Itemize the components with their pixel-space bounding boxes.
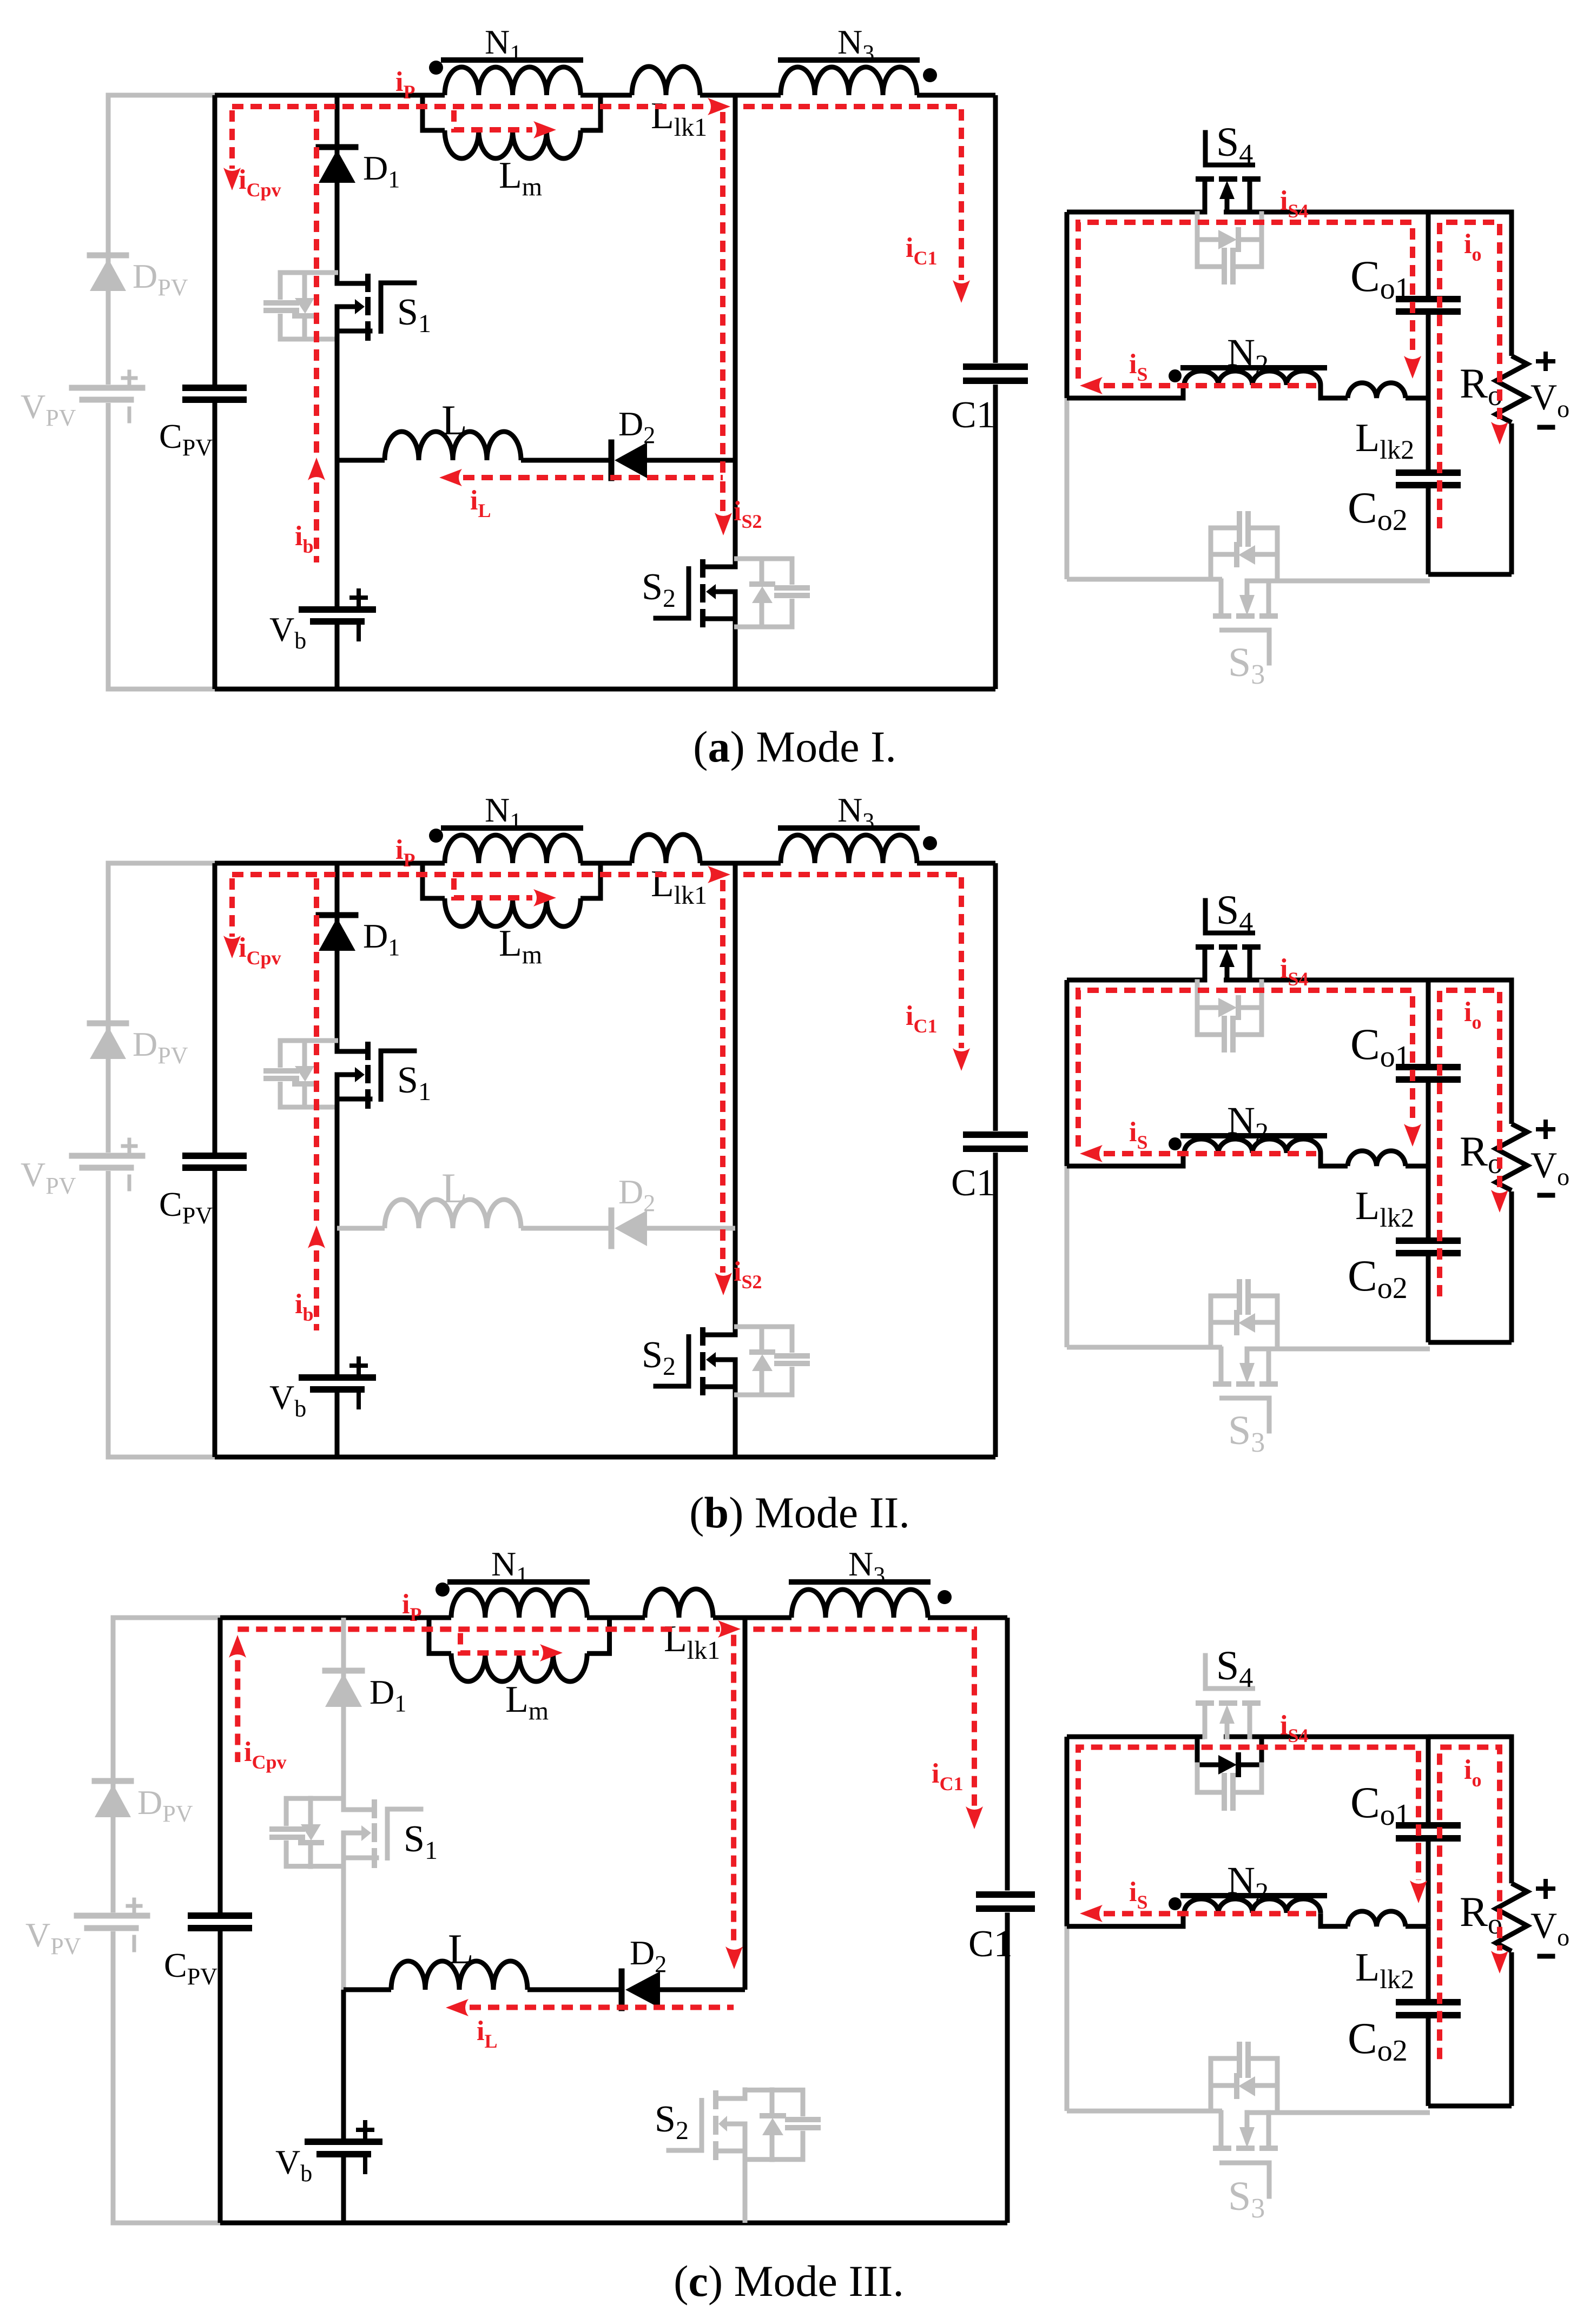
wire: output capacitor branch (a) — [1426, 212, 1431, 296]
svg-text:(b) Mode II.: (b) Mode II. — [689, 1488, 910, 1537]
transistor S2 (MOSFET) (b) — [705, 1333, 735, 1338]
wire: center column node A (b) — [733, 863, 738, 1335]
wire: battery inductor row (c) — [344, 1987, 391, 1992]
current path ip through Lm (b) — [454, 878, 532, 898]
diode D1 (c) — [325, 1668, 362, 1674]
wire: output right edge (b) — [1428, 980, 1512, 1124]
label: output voltage Vo (c) — [1538, 1886, 1553, 1891]
transistor S4 (MOSFET) (c) — [1203, 1656, 1208, 1689]
capacitor Co2 (a) — [1399, 469, 1457, 476]
transformer winding N2 (c) — [1184, 1899, 1321, 1913]
current path iC1 (b) — [743, 875, 961, 1048]
capacitor C1 (a) — [966, 363, 1025, 370]
capacitor CPV (a) — [186, 385, 243, 391]
inductor Llk1 (leakage) (c) — [645, 1589, 713, 1618]
body diode and capacitor of S2 (a) — [734, 559, 792, 585]
inductor Llk2 (leakage) (a) — [1348, 383, 1406, 398]
svg-text:L: L — [441, 1164, 467, 1211]
current path iCpv (a) — [229, 110, 235, 169]
diode DPV (b) — [90, 1021, 126, 1027]
current path ip through Lm (c) — [460, 1633, 539, 1653]
dot: N1 polarity (b) — [429, 829, 443, 843]
body diode and capacitor of S4 (a) — [1195, 214, 1200, 240]
svg-text:C1: C1 — [968, 1923, 1013, 1965]
diode D1 (b) — [319, 912, 355, 918]
resistor Ro (c) — [1496, 1883, 1527, 1951]
wire: column S1-source to battery (a) — [335, 331, 340, 460]
transformer winding N2 (a) — [1184, 371, 1321, 385]
dot: N3 polarity (a) — [923, 68, 937, 82]
current path iS (c) — [1104, 1911, 1316, 1916]
svg-text:(a) Mode I.: (a) Mode I. — [693, 722, 896, 771]
diode DPV (a) — [90, 253, 126, 259]
wire: secondary winding row (b) — [1067, 1153, 1183, 1166]
wire: output capacitor branch (c) — [1426, 1737, 1431, 1822]
wire: left edge (c) — [218, 1618, 223, 1912]
battery VPV (a) — [72, 385, 142, 391]
wire: secondary left edge (a) — [1065, 212, 1070, 398]
wire: secondary bottom rail (b) — [1067, 1345, 1222, 1350]
capacitor CPV (b) — [186, 1153, 243, 1159]
current path iL (a) — [463, 475, 723, 480]
wire: secondary top rail (c) — [1067, 1734, 1205, 1739]
diode D1 (a) — [319, 144, 355, 150]
current path iL (c) — [470, 2005, 734, 2010]
wire: column D1-S1 (c) — [341, 1618, 346, 1810]
current path ib (b) — [314, 878, 319, 1221]
transformer winding N3 (a) — [781, 67, 917, 95]
transistor S2 (MOSFET) (c) — [743, 2090, 748, 2098]
wire: output right edge (c) — [1428, 1737, 1512, 1883]
dot: N3 polarity (c) — [938, 1590, 952, 1604]
wire: secondary bottom rail (c) — [1067, 2109, 1222, 2114]
wire: center column node A (a) — [733, 95, 738, 567]
wire: battery inductor row (a) — [337, 458, 385, 463]
wire: output right edge (a) — [1428, 212, 1512, 356]
current path ip (b) — [232, 872, 708, 877]
inductor L (c) — [391, 1961, 527, 1990]
battery VPV (b) — [72, 1153, 142, 1159]
transistor S4 (MOSFET) (a) — [1203, 133, 1208, 165]
transformer winding N1 (a) — [445, 67, 580, 95]
wire: outer PV loop (inactive, c) — [113, 1618, 220, 1912]
wire: column S1-source to battery (b) — [335, 1099, 340, 1228]
svg-text:C1: C1 — [951, 394, 995, 436]
wire: left edge (a) — [213, 95, 217, 385]
current path io (b) — [1440, 990, 1500, 1296]
transformer winding N2 (b) — [1184, 1139, 1321, 1153]
diode D2 (a) — [609, 442, 615, 478]
transistor S1 (MOSFET) (a) — [337, 281, 368, 286]
current path iC1 (a) — [743, 107, 961, 280]
svg-text:L: L — [448, 1925, 474, 1972]
body diode and capacitor of S1 (b) — [280, 1041, 338, 1068]
resistor Ro (b) — [1496, 1124, 1527, 1190]
current path iS4 (b) — [1078, 990, 1413, 1147]
transistor S3 (MOSFET, inactive) (a) — [1219, 581, 1224, 614]
inductor Llk2 (leakage) (b) — [1348, 1151, 1406, 1166]
current path io (c) — [1440, 1747, 1500, 2059]
body diode and capacitor of S1 (a) — [280, 273, 338, 300]
dot: N2 polarity (c) — [1169, 1897, 1182, 1910]
current path ip (a) — [232, 104, 708, 109]
wire: top rail (a) — [215, 93, 445, 98]
current path ip through Lm (a) — [454, 110, 532, 130]
svg-text:L: L — [441, 396, 467, 443]
battery Vb (a) — [302, 606, 373, 613]
current path iS (a) — [1104, 383, 1316, 388]
diode D2 (c) — [619, 1971, 625, 2008]
inductor Lm (magnetizing) (a) — [423, 95, 445, 130]
dot: N2 polarity (b) — [1169, 1137, 1182, 1150]
transistor S2 (MOSFET) (a) — [705, 565, 735, 570]
body diode and capacitor of S2 (b) — [734, 1327, 792, 1353]
wire: column S1-source to battery (c) — [341, 1858, 346, 1990]
svg-text:C1: C1 — [951, 1162, 995, 1204]
body diode and capacitor of S3 (a) — [1209, 528, 1213, 579]
inductor L (b) — [385, 1200, 521, 1228]
current path iCpv (c) — [229, 1635, 246, 1658]
body diode and capacitor of S1 (c) — [286, 1798, 345, 1826]
label: output voltage Vo (b) — [1538, 1127, 1553, 1131]
battery Vb (c) — [308, 2138, 379, 2145]
wire: output capacitor branch (b) — [1426, 980, 1431, 1064]
transistor S3 (MOSFET, inactive) (c) — [1219, 2113, 1224, 2146]
wire: secondary left edge (c) — [1065, 1737, 1070, 1926]
wire: right edge with C1 branch (a) — [993, 95, 998, 363]
inductor Llk2 (leakage) (c) — [1348, 1911, 1406, 1926]
wire: outer PV loop (inactive, b) — [108, 863, 215, 1153]
wire: secondary left edge (b) — [1065, 980, 1070, 1166]
wire: secondary winding row (a) — [1067, 385, 1183, 398]
capacitor Co1 (a) — [1399, 296, 1457, 302]
dot: N1 polarity (a) — [429, 61, 443, 75]
current path ib (a) — [314, 110, 319, 453]
capacitor Co1 (b) — [1399, 1064, 1457, 1070]
wire: right edge with C1 branch (c) — [1005, 1618, 1010, 1890]
body diode and capacitor of S4 (b) — [1195, 982, 1200, 1008]
capacitor CPV (c) — [191, 1912, 249, 1919]
transistor S3 (MOSFET, inactive) (b) — [1219, 1349, 1224, 1382]
label: output voltage Vo (a) — [1538, 359, 1553, 363]
transformer winding N3 (c) — [791, 1590, 928, 1618]
body diode and capacitor of S4 (c) — [1195, 1738, 1200, 1765]
current path iS4 (c) — [1078, 1747, 1419, 1899]
capacitor Co2 (b) — [1399, 1237, 1457, 1244]
wire: bottom rail (b) — [215, 1455, 995, 1460]
dot: N3 polarity (b) — [923, 836, 937, 850]
wire: column D1-S1 (a) — [335, 95, 340, 283]
dot: N2 polarity (a) — [1169, 369, 1182, 382]
transistor S1 (MOSFET) (b) — [337, 1049, 368, 1054]
transformer winding N1 (b) — [445, 835, 580, 863]
wire: top rail (c) — [220, 1615, 451, 1620]
capacitor C1 (b) — [966, 1131, 1025, 1138]
inductor Lm (magnetizing) (b) — [423, 863, 445, 898]
wire: column D1-S1 (b) — [335, 863, 340, 1051]
current path iC1 (c) — [753, 1629, 974, 1806]
resistor Ro (a) — [1496, 356, 1527, 422]
inductor Llk1 (leakage) (b) — [632, 835, 700, 863]
current path iS2 (a) — [720, 112, 725, 473]
wire: secondary winding row (c) — [1067, 1913, 1183, 1926]
wire: battery inductor row (b) — [337, 1226, 385, 1231]
inductor L (a) — [385, 432, 521, 460]
current path io (a) — [1440, 222, 1500, 528]
dot: N1 polarity (c) — [436, 1583, 450, 1597]
transformer winding N3 (b) — [781, 835, 917, 863]
current path ip (c) — [237, 1626, 720, 1632]
svg-text:(c) Mode III.: (c) Mode III. — [674, 2256, 904, 2306]
wire: center column node A (c) — [743, 1618, 748, 1990]
capacitor Co2 (c) — [1399, 1999, 1457, 2005]
transistor S1 (MOSFET) (c) — [344, 1807, 374, 1812]
current path iCpv (b) — [229, 878, 235, 937]
wire: secondary bottom rail (a) — [1067, 577, 1222, 582]
wire: bottom rail (a) — [215, 687, 995, 692]
wire: secondary top rail (a) — [1067, 210, 1205, 215]
current path iS2 (c) — [731, 1635, 736, 1946]
transformer winding N1 (c) — [451, 1590, 587, 1618]
current path iS (b) — [1104, 1151, 1316, 1156]
capacitor Co1 (c) — [1399, 1822, 1457, 1829]
body diode and capacitor of S2 (c) — [744, 2090, 803, 2116]
wire: bottom rail (c) — [220, 2220, 1007, 2225]
inductor Llk1 (leakage) (a) — [632, 67, 700, 95]
body diode and capacitor of S3 (b) — [1209, 1296, 1213, 1347]
wire: outer PV loop (inactive, a) — [108, 95, 215, 385]
capacitor C1 (c) — [979, 1891, 1032, 1898]
wire: left edge (b) — [213, 863, 217, 1153]
diode D2 (b) — [609, 1210, 615, 1246]
battery VPV (c) — [77, 1913, 147, 1919]
wire: right edge with C1 branch (b) — [993, 863, 998, 1131]
body diode and capacitor of S3 (c) — [1209, 2058, 1213, 2111]
wire: top rail (b) — [215, 861, 445, 866]
current path iS2 (b) — [720, 880, 725, 1273]
current path iS4 (a) — [1078, 222, 1413, 379]
diode DPV (c) — [95, 1778, 131, 1784]
transistor S4 (MOSFET) (b) — [1203, 901, 1208, 933]
battery Vb (b) — [302, 1374, 373, 1381]
wire: secondary top rail (b) — [1067, 978, 1205, 983]
inductor Lm (magnetizing) (c) — [429, 1618, 451, 1653]
